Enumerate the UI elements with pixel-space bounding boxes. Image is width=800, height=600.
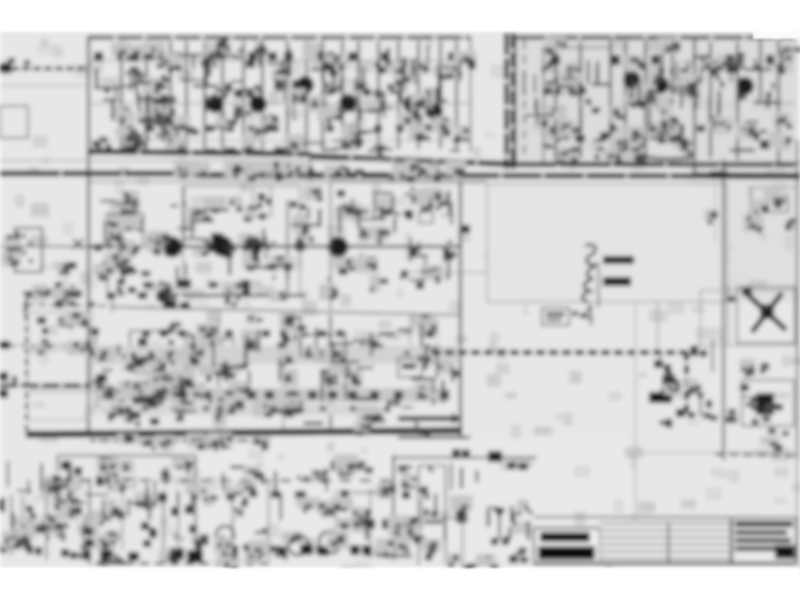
blob — [762, 304, 770, 311]
blob — [150, 418, 159, 425]
resistor R7 — [248, 125, 256, 132]
label cluster — [163, 300, 177, 309]
wire — [329, 315, 331, 428]
input signal wire — [0, 67, 88, 71]
title right text4 — [735, 546, 775, 551]
label — [124, 198, 131, 206]
blob — [416, 282, 424, 289]
blob — [61, 461, 71, 470]
label row2 — [262, 330, 270, 337]
component texture block1 — [93, 40, 477, 160]
cluster blob3 — [126, 221, 136, 228]
box corner v — [57, 455, 59, 472]
wire — [283, 318, 285, 430]
blob — [27, 291, 36, 298]
label — [487, 557, 495, 564]
faint box right — [797, 452, 799, 530]
resistor R31 — [130, 269, 137, 274]
wire — [712, 340, 714, 372]
wire — [671, 40, 673, 95]
label — [308, 391, 317, 399]
capacitor C30 — [102, 261, 110, 270]
block3 top border right — [330, 181, 487, 184]
wire — [261, 41, 263, 149]
label row2 — [178, 330, 186, 337]
block2 lower density — [542, 122, 790, 154]
faint divider — [635, 302, 637, 530]
label — [518, 463, 528, 470]
corner mark — [70, 301, 76, 306]
junction square — [462, 225, 470, 233]
resistor R13 — [441, 125, 449, 132]
dashed wire — [60, 479, 392, 482]
blob — [256, 356, 264, 363]
wire — [120, 41, 122, 149]
wire texture block3 v — [105, 189, 452, 280]
component blob bottom row — [376, 549, 385, 557]
page seam line 1 — [504, 33, 509, 169]
open area rect — [487, 184, 727, 302]
capacitor C11 — [448, 52, 457, 61]
component box — [222, 339, 234, 351]
wye tick — [428, 344, 433, 352]
transistor Q21 — [212, 236, 233, 257]
wire row wash — [95, 346, 460, 364]
component texture bottom — [2, 454, 533, 574]
resistor R2 — [246, 61, 255, 68]
label — [352, 214, 357, 218]
resistor row — [652, 131, 661, 138]
capacitor C20 — [551, 55, 560, 65]
component texture block4 — [86, 313, 459, 438]
dac box bar2 — [649, 392, 672, 403]
label — [299, 204, 306, 210]
page right edge shadow — [796, 140, 799, 460]
block1 left border dark segment — [87, 37, 89, 80]
bottom border dashes — [95, 562, 270, 565]
blob — [295, 491, 306, 499]
label cluster2 — [180, 302, 190, 309]
wire — [750, 186, 752, 220]
wire row — [186, 356, 460, 358]
label — [394, 391, 403, 399]
capacitor — [396, 519, 403, 529]
resistor R10 — [348, 125, 356, 132]
label row2 — [205, 330, 213, 337]
blob — [288, 354, 298, 362]
connector J1 box — [15, 228, 42, 272]
wire — [89, 478, 91, 565]
label — [133, 201, 140, 208]
block1 right border — [470, 37, 472, 152]
blob pair2 — [462, 450, 470, 458]
resistor R24 — [664, 125, 673, 132]
label — [328, 391, 337, 399]
component blob bottom row — [225, 546, 238, 557]
output arrowhead — [452, 413, 462, 424]
label row2 — [318, 330, 326, 337]
block4 top step — [112, 300, 114, 313]
connector pin — [428, 199, 433, 204]
wire texture block2 h — [525, 57, 780, 150]
capacitor C31 — [313, 186, 322, 199]
resistor R40 — [138, 338, 147, 346]
connector J1 pin — [22, 251, 26, 255]
transistor Q31 — [234, 353, 250, 369]
resistor R21 — [566, 124, 574, 131]
label — [507, 462, 516, 469]
title right edge — [796, 517, 798, 563]
cal box — [398, 358, 422, 377]
blob cluster2 — [664, 364, 671, 373]
transistor Q12 — [651, 76, 669, 94]
component box — [419, 212, 433, 223]
wire faint — [487, 272, 572, 275]
resistor R5 — [206, 125, 214, 132]
blob pair — [452, 449, 460, 458]
note blob — [143, 282, 153, 288]
blob — [445, 252, 454, 260]
label — [580, 313, 587, 318]
subbox right vertical — [287, 200, 289, 295]
tick — [676, 380, 680, 390]
wire — [693, 37, 695, 175]
wire faint2 — [728, 285, 730, 345]
label — [103, 275, 109, 280]
label — [782, 431, 789, 436]
faint box2 — [28, 350, 92, 388]
wire — [445, 465, 447, 565]
capacitor C24 — [766, 55, 775, 65]
blob — [96, 476, 105, 486]
label — [342, 210, 347, 214]
blob — [417, 353, 425, 360]
blob — [404, 210, 413, 218]
label — [345, 521, 353, 527]
wire — [357, 41, 359, 149]
label — [320, 406, 326, 411]
resistor R3 — [126, 125, 134, 132]
capacitor C21 — [611, 55, 620, 65]
label — [520, 557, 528, 563]
connector J1 pin — [22, 234, 26, 238]
label — [378, 215, 383, 219]
resistor R1 — [201, 60, 210, 67]
blob — [185, 505, 194, 514]
blob — [108, 481, 116, 490]
label — [428, 326, 436, 332]
resistor R26 — [697, 125, 705, 132]
capacitor C12 — [292, 80, 299, 91]
title rule6 — [600, 558, 731, 560]
wire — [644, 40, 646, 162]
block2 inner box top — [543, 47, 612, 49]
tick — [12, 376, 17, 383]
subbox bottom edge — [183, 294, 305, 297]
corner light patch — [753, 28, 800, 39]
wire faint pre-bus — [0, 160, 460, 162]
blob — [316, 546, 326, 554]
transistor Q2 — [206, 95, 224, 113]
wire — [579, 42, 581, 158]
label — [292, 406, 298, 411]
blob — [379, 490, 390, 498]
connector pin — [436, 206, 441, 211]
label — [105, 391, 114, 399]
relay blob — [488, 451, 502, 462]
blob — [171, 507, 179, 516]
label — [340, 490, 349, 497]
blob — [143, 540, 151, 547]
cluster blob5 — [223, 249, 233, 258]
label glyph 4c — [590, 305, 592, 326]
title rule3 — [600, 537, 731, 539]
resistor R11 — [374, 125, 382, 132]
transformer ring3 — [216, 526, 234, 544]
wire main row — [0, 246, 88, 248]
component outline — [122, 478, 135, 487]
transistor Q6 — [403, 95, 421, 113]
cluster blob4 — [211, 233, 223, 243]
wire main row mid — [88, 245, 460, 248]
wire — [462, 505, 464, 565]
component texture block4 left — [38, 311, 93, 356]
transistor Q33 — [359, 340, 375, 356]
block4 top border right — [112, 307, 460, 315]
title logo bar1 — [540, 532, 590, 542]
note blob — [227, 285, 235, 290]
blob — [117, 511, 124, 518]
transistor Q24 — [294, 240, 306, 252]
capacitor C1 — [94, 52, 103, 61]
wire texture block2 v — [524, 51, 782, 130]
label row2 — [300, 330, 308, 337]
transistor Q22 — [242, 236, 263, 257]
label — [203, 406, 209, 411]
label — [337, 190, 345, 197]
blob — [300, 544, 312, 553]
blob — [35, 547, 42, 555]
wire swoosh — [640, 156, 686, 159]
capacitor — [408, 519, 415, 529]
component texture block3 — [93, 186, 456, 307]
block3 right border — [459, 181, 462, 437]
blob — [70, 552, 77, 559]
blob — [375, 548, 383, 555]
title right bg — [733, 519, 797, 564]
wire — [439, 41, 441, 149]
blob — [275, 546, 285, 554]
label — [202, 391, 211, 399]
fold diagonal — [52, 288, 75, 307]
blob — [204, 352, 212, 360]
bus hatch — [174, 159, 469, 182]
block2 left border — [515, 37, 517, 165]
resistor R27 — [760, 140, 770, 149]
transistor Q10 — [551, 77, 569, 95]
stacked resistor pair2 — [240, 290, 250, 297]
wire — [736, 42, 738, 160]
blob — [55, 282, 62, 288]
wire texture bottom v — [8, 461, 528, 540]
resistor R6 — [226, 125, 234, 132]
wire — [722, 160, 724, 460]
blob — [96, 374, 107, 382]
label glyph 4 — [585, 305, 590, 318]
capacitor C4 — [206, 52, 215, 61]
note blob — [176, 279, 191, 288]
blob — [82, 552, 91, 560]
capacitor C3 — [172, 52, 181, 61]
label — [392, 349, 399, 354]
component texture right top — [704, 185, 796, 232]
wire — [755, 103, 795, 105]
junction cross2 — [73, 239, 83, 249]
title right text1 — [735, 521, 793, 527]
component box — [253, 186, 271, 216]
block1 top border — [88, 36, 470, 40]
blob pair2 — [148, 400, 158, 408]
transistor Q40 — [246, 544, 262, 560]
transistor Q11 — [623, 71, 641, 89]
resistor R12 — [396, 125, 404, 132]
note blob — [209, 282, 218, 288]
wire — [203, 41, 205, 149]
blob — [690, 346, 698, 356]
component texture left margin — [1, 239, 82, 305]
terminal square — [0, 389, 8, 398]
transistor Q25 — [156, 289, 170, 303]
wire — [668, 92, 694, 94]
blob cluster — [654, 360, 663, 368]
title right text2 — [735, 530, 787, 535]
label — [271, 491, 281, 498]
label — [290, 201, 297, 208]
blob — [700, 350, 707, 357]
block4 caption dashes — [90, 439, 265, 442]
blob — [26, 506, 33, 512]
wire — [145, 41, 147, 149]
capacitor C25 — [726, 55, 739, 73]
blob — [268, 358, 275, 364]
wire — [410, 315, 412, 350]
note blob — [117, 279, 125, 285]
faint box3 — [28, 392, 88, 420]
wire — [22, 495, 24, 545]
block2 bottom border — [505, 162, 795, 167]
block3 top border — [90, 181, 330, 183]
label — [387, 84, 394, 90]
label — [706, 400, 712, 408]
component texture block2 — [542, 37, 800, 167]
label — [400, 516, 408, 522]
transformer X mark — [748, 295, 786, 330]
faint box top — [630, 452, 797, 454]
wire — [341, 41, 343, 149]
wire texture block3 h — [100, 193, 432, 280]
label — [432, 348, 439, 354]
label row2 — [244, 330, 252, 337]
block4 bottom border — [26, 431, 462, 435]
blob — [138, 292, 147, 299]
bottom block top border — [715, 454, 800, 456]
bus wire far right — [695, 173, 800, 180]
wire — [345, 332, 347, 400]
polarized symbol stem — [498, 517, 500, 540]
label — [380, 347, 388, 353]
input arrowhead — [0, 63, 11, 73]
blob — [189, 525, 197, 533]
resistor row — [600, 132, 609, 139]
resistor R25 — [676, 124, 684, 135]
wire — [310, 152, 312, 181]
title rule4 — [600, 544, 731, 546]
resistor R22 — [609, 124, 616, 132]
title right text3 — [735, 538, 791, 543]
note blob — [241, 285, 250, 291]
scan margin bottom — [0, 568, 800, 600]
input wire dashed — [0, 345, 88, 347]
label — [266, 198, 272, 205]
component blob bottom row — [276, 548, 287, 557]
transistor Q1 — [153, 94, 171, 112]
component box — [96, 392, 114, 406]
block4 left border — [25, 304, 28, 434]
wire — [660, 352, 662, 362]
wire — [455, 41, 457, 149]
wire — [122, 495, 124, 550]
title rule — [600, 523, 731, 525]
resistor R9 — [326, 125, 334, 132]
block1 bottom hatch — [96, 147, 460, 151]
corner blob — [377, 486, 387, 496]
dark cluster — [170, 548, 184, 560]
scan margin top — [0, 0, 800, 31]
wire — [400, 272, 487, 274]
dashed signal wire down — [684, 352, 689, 413]
polarized symbol arrowhead — [493, 508, 506, 518]
label — [225, 83, 232, 92]
caption texture — [117, 432, 271, 451]
box top — [700, 290, 795, 292]
label — [104, 88, 110, 93]
blob — [158, 493, 167, 502]
label — [172, 406, 178, 411]
connector J1 blob — [6, 235, 13, 241]
reference label text — [546, 312, 565, 316]
wire — [425, 255, 427, 280]
wire — [350, 492, 393, 494]
label — [348, 391, 357, 399]
transistor Q5 — [339, 94, 357, 112]
label — [262, 406, 268, 411]
subbox left edge — [182, 186, 184, 246]
blob — [29, 513, 36, 520]
wire — [88, 140, 470, 142]
title table bg — [600, 521, 731, 563]
blob — [37, 317, 46, 324]
wire — [759, 40, 761, 100]
paper shade right page — [513, 33, 798, 166]
connector J1 pin — [28, 241, 32, 245]
label — [342, 355, 349, 361]
polarized symbol foot — [491, 538, 498, 545]
meter fill — [756, 393, 774, 415]
label — [768, 428, 776, 434]
bus wire right — [460, 173, 695, 179]
capacitor C6 — [268, 52, 277, 61]
wire — [709, 42, 711, 158]
